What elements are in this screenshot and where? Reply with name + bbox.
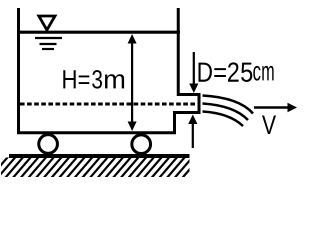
tank outline (left wall, bottom, outlet step, pipe bottom, pipe end cap, pipe top, right wall) — [19, 8, 200, 133]
jet flow line middle — [203, 104, 249, 121]
H dimension arrow shaft — [131, 40, 133, 125]
D dimension arrowhead down — [189, 84, 198, 94]
jet flow line bottom — [203, 112, 244, 127]
water level triangle symbol — [39, 16, 55, 30]
label cm (square centimetre glyph) — [253, 66, 273, 81]
D dimension arrow shaft — [193, 52, 195, 86]
label H=3m — [63, 70, 124, 89]
velocity arrow shaft — [254, 106, 289, 109]
up arrow below pipe head — [188, 115, 197, 125]
H dimension arrowhead up — [128, 34, 137, 44]
velocity arrowhead — [288, 103, 298, 112]
label D=25 — [199, 62, 253, 82]
dashed centerline of outlet — [20, 103, 197, 106]
water surface line — [17, 31, 180, 34]
up arrow below pipe shaft — [192, 121, 194, 148]
right wheel — [132, 135, 151, 154]
water symbol line 3 — [42, 48, 54, 50]
ground line — [9, 154, 190, 158]
water symbol line 1 — [35, 37, 62, 39]
left wheel — [39, 135, 58, 154]
jet flow line top — [203, 96, 254, 114]
water symbol line 2 — [40, 43, 57, 45]
H dimension arrowhead down — [128, 122, 137, 132]
label V — [262, 116, 276, 135]
